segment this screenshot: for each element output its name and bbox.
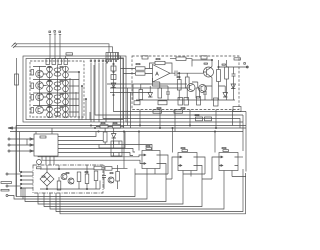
input resistor R6 [136,72,146,75]
resistor R15 vertical [196,82,200,98]
input terminal e [6,185,21,187]
transistor Q5 [203,67,214,78]
bias resistor RA2 [52,59,56,65]
LE4 pins [219,156,238,166]
wire row2 [43,85,79,88]
wire LE3 bottom pins [183,171,191,177]
block LA1 dashed box [30,61,84,117]
power rail top 1 [14,44,110,53]
wire LE1 top stub [36,128,52,134]
label LE4 [223,150,229,152]
column wires block right 2 [82,65,94,122]
resistor R1 on left feed [15,74,19,85]
block LA1 outer box [23,56,126,122]
wire bus to LE2 top [138,132,140,151]
diode chain resistor Rt1 [111,66,116,71]
PU top pins [47,165,118,172]
label LE1 [40,136,46,138]
top rail resistor R8 [170,57,192,67]
input terminal b [8,144,34,146]
diode VD6 [231,84,236,89]
winding row2 [54,82,61,90]
LE1 output wire 1 [58,132,96,137]
resistor R23 vertical [116,169,120,190]
resistor R9 vertical [177,73,181,100]
mesh wire 7 [50,174,224,209]
terminal 2 top [54,34,56,59]
wire row3 [43,97,79,99]
feedback resistor R7 [155,61,165,64]
wire amp lower left [107,84,187,100]
logic block LE4 [219,153,238,171]
transistor Q3 [36,93,44,101]
wire box bottom extension [126,121,243,123]
label input text [1,182,12,191]
wire transformer down [114,60,247,112]
logic block LE3 [178,153,197,171]
LE2 pins [142,154,160,164]
bus line 1 [16,125,246,127]
wire LE4 out a [238,156,243,158]
mesh cross wires [135,174,246,179]
amplifier DA1 dashed box [132,56,239,110]
wire amp inputs [145,69,153,74]
wire LE3 out b [197,166,202,177]
power unit PU dash-dot box [33,165,103,193]
LE1 output wire 5 [58,153,133,156]
pin stub wires [91,63,240,129]
wire PU right up [112,132,128,169]
power rail top 2 [14,47,113,53]
amp box drops to bus [140,110,233,132]
LE3 pins [178,156,197,166]
core pair row2 right [63,80,69,92]
mesh wire 3 [23,172,147,200]
input terminal f [6,195,23,200]
label DA1 [234,58,241,60]
wire row boundaries [33,67,79,106]
capacitor C5 [102,170,106,189]
mesh wire 1 [16,196,21,198]
resistor R27 PU top [94,166,102,170]
mesh wire 5 [38,174,183,204]
label PU [37,167,42,169]
resistor R30 on box top [201,56,207,59]
transistor Q1 [36,70,44,78]
resistor R11 vertical [217,60,221,100]
core pair row4 right [63,106,69,118]
input resistor R5 [136,67,146,70]
feedback wire [150,63,173,73]
wire Q5 collector [192,60,212,67]
wire row4 [43,110,79,112]
coupling capacitor C1 [170,71,203,77]
column wires block right [70,72,79,120]
core pair row3 right [63,93,69,105]
amp bottom rail [136,99,235,101]
transistor Q10 [199,85,207,93]
LE1 output wire 2 [58,140,103,142]
transformer T1 [106,53,119,60]
input resistor RL2 [31,83,34,89]
wire amp internal low [141,78,225,86]
wire winding columns [40,65,66,118]
mesh wire 2 [21,169,135,197]
LE1 bottom pins [46,156,54,165]
connector X1 [233,107,241,112]
mesh wire 4 [25,177,166,202]
rail break symbol [12,43,18,49]
core pair row2 left [47,80,53,92]
core pair row3 left [47,93,53,105]
mesh wire 8 [56,169,243,212]
input resistor RL4 [31,108,34,114]
core pair row4 left [47,106,53,118]
output wire [219,66,249,68]
resistor R34 low [197,97,201,106]
logic block LE2 [142,151,160,169]
resistor R35 low [214,98,219,106]
bus left drops [16,126,20,197]
logic block LE1 [34,134,58,156]
bus right drops [243,112,246,172]
wire Q5 emitter [211,78,213,101]
wire LE4 bottom pins [224,171,232,177]
transistor Q7 [68,178,74,184]
diode VD1 [111,83,116,88]
terminal labels top [49,31,61,33]
resistor R17 [113,125,125,128]
winding row3 [54,95,61,103]
wire LE3 out a [197,157,205,174]
resistor R22 vertical [94,171,98,189]
transistor Q4 [36,106,44,114]
bridge rectifier VD5 [40,172,54,186]
op-amp U1 [153,65,171,83]
resistor R14 vertical [158,82,162,98]
winding row4 [54,108,61,116]
wire to amp input 1 [119,56,136,126]
wire LE2 out a [160,155,168,174]
resistor R29 on box top [142,56,148,59]
component reference specks [42,59,226,178]
input terminal d [6,173,21,175]
wire to amp input 1 [95,62,243,115]
wire mid cluster [99,132,125,149]
resistor R24 on ladder [153,110,162,113]
resistor R31 low [158,101,167,105]
bias resistor RA4 [64,59,68,65]
diode VD3 [223,86,228,97]
label LA1 [66,53,73,55]
branch wire inputs [26,139,28,145]
resistor R16 [96,125,112,128]
wire to amp input 2 [119,58,136,128]
label LE2 [146,148,152,150]
resistor R19 vertical [57,177,61,190]
output terminal [244,63,249,68]
diode VD4 [112,128,117,148]
capacitor C3 [166,86,170,100]
relay K1 box [111,141,122,156]
wire bias resistor drops [65,56,67,59]
node dot t1 [108,60,117,72]
left feed wire [16,58,18,197]
capacitor C2 [232,67,236,100]
bus arrow line [8,127,246,129]
pin numbers [90,60,106,61]
bias resistor RA3 [58,59,62,65]
resistor R33 pair low [178,98,189,106]
wire amp left verticals [128,88,131,128]
resistor R21 vertical [85,169,89,190]
mesh wire 6 [44,177,202,207]
terminal column [20,171,33,189]
wire row1 [43,72,79,74]
diode VD2 [148,86,153,97]
diode chain resistor Rt2 [111,75,116,80]
wire bus to LE3 top [172,128,174,153]
resistor R10 vertical [185,73,189,100]
wire LE3 in a [172,157,178,179]
resistor R20 vertical [77,172,81,189]
wire bus to LE4 top [214,132,216,153]
wire LE1 to LE2 pin a [38,155,142,157]
label LE3 [182,150,188,152]
input terminal a [8,138,34,140]
resistor R18 vertical [103,128,107,144]
input resistor RL3 [31,95,34,101]
transistor Q11 below LE1 [37,160,42,165]
wire LE2 out b [160,164,166,177]
resistor R25 on ladder [174,110,183,113]
resistor R13 vertical [139,84,143,100]
wire LE4 in a [212,157,219,179]
core pair row1 right [63,66,69,78]
transistor Q6 [61,174,67,180]
transistor Q9 [187,84,195,92]
resistor R12 vertical [225,60,229,100]
wire LE2 bottom pins [147,169,155,175]
wire LE1 to LE2 pin b [42,156,142,164]
terminal 3 top [59,35,61,59]
bias resistor RA1 [46,59,50,65]
resistor R28 outside PU [105,167,112,171]
resistor R26 pair [196,117,212,121]
transistor Q8 [108,177,114,183]
block LA1 middle box [26,59,123,120]
input terminal c [8,150,34,152]
LE1 output wire 4 [58,149,135,153]
core pair row1 left [47,66,53,78]
transistor Q2 [36,82,44,90]
LE1 output wire 3 [58,145,152,151]
resistor R32 low row [134,101,140,105]
input resistor RL1 [31,70,34,76]
mesh wire 9 [60,173,246,214]
winding row1 [54,68,61,76]
terminal 1 top [49,35,51,59]
PU internal rails [40,169,100,189]
capacitor C4 [203,86,207,100]
bus line 2 [10,131,243,133]
